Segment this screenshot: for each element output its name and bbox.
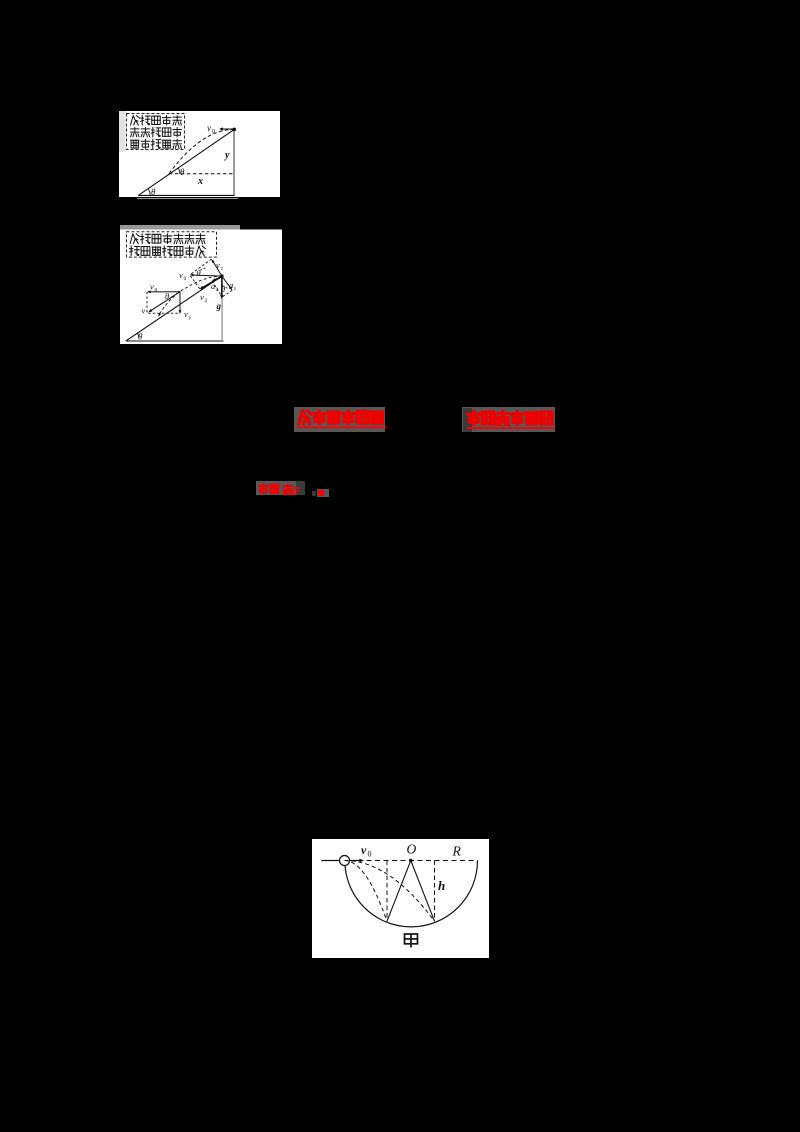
center O dot xyxy=(409,859,412,862)
figure 2: thrown from apex, farthest from incline xyxy=(120,225,282,344)
ball xyxy=(340,856,350,866)
dashed parallelogram side v1tip to v0tip xyxy=(190,259,212,275)
svg-text:0: 0 xyxy=(184,276,187,282)
svg-text:v: v xyxy=(200,292,204,302)
dashed diameter xyxy=(350,860,478,862)
dashed vertical right (h) xyxy=(434,861,436,922)
dashed parallelogram side v2tip to v0tip xyxy=(190,275,200,289)
svg-text:1: 1 xyxy=(221,266,224,272)
small red caption line xyxy=(256,481,296,496)
incline slope xyxy=(126,276,222,341)
vy arrow at M xyxy=(179,292,181,312)
svg-text:g: g xyxy=(216,301,222,311)
left radius line xyxy=(387,861,411,922)
v0 arrow at M xyxy=(149,291,180,293)
svg-text:v: v xyxy=(179,270,183,280)
svg-text:h: h xyxy=(438,878,445,893)
dashed side a2tip to gtip xyxy=(212,281,222,297)
dashed trajectory xyxy=(169,129,234,173)
svg-text:v: v xyxy=(361,843,367,857)
dashed horizontal x line xyxy=(169,173,234,175)
svg-text:0: 0 xyxy=(155,288,158,294)
semicircular bowl arc xyxy=(345,861,478,927)
v0 arrow xyxy=(222,128,235,130)
dashed vertical left xyxy=(386,861,388,922)
figure 3: ball thrown into semicircular bowl xyxy=(312,839,489,958)
svg-text:v: v xyxy=(216,260,220,270)
g arrow straight down xyxy=(221,276,223,297)
svg-text:O: O xyxy=(407,842,417,857)
svg-text:v: v xyxy=(184,309,188,319)
svg-text:θ: θ xyxy=(197,268,201,278)
svg-text:θ: θ xyxy=(151,187,156,197)
trajectory end arrow xyxy=(159,313,160,315)
v1 arrow perpendicular to slope xyxy=(213,261,222,276)
figure 1: projectile from incline apex landing on incline xyxy=(119,111,280,197)
v2 arrow along slope (double stroke) xyxy=(201,277,222,289)
angle theta at landing point xyxy=(178,168,180,174)
red heading block 1 xyxy=(294,407,385,432)
svg-text:R: R xyxy=(452,844,462,859)
v0 arrow line xyxy=(321,860,361,862)
launch point dot xyxy=(232,128,236,132)
incline slope xyxy=(138,129,234,195)
v resultant arrow at M xyxy=(150,292,180,311)
svg-text:y: y xyxy=(224,150,230,161)
svg-text:v: v xyxy=(142,306,146,316)
dashed horizontal from v tip to vy tip xyxy=(148,312,180,314)
svg-text:y: y xyxy=(189,315,192,321)
dashed trajectory shallow xyxy=(345,861,435,922)
a1 arrow perpendicular into slope xyxy=(222,276,231,288)
dashed trajectory from apex through farthest point M xyxy=(161,276,222,312)
dashed trajectory steep xyxy=(345,861,388,922)
caption box: 从斜面顶点水平/抛出,离斜面最远 xyxy=(127,232,217,257)
angle theta at incline base xyxy=(148,189,150,196)
incline right vertical xyxy=(221,276,223,341)
svg-text:1: 1 xyxy=(234,286,237,292)
svg-text:θ: θ xyxy=(180,167,185,177)
right radius line xyxy=(411,861,435,922)
svg-text:2: 2 xyxy=(205,298,208,304)
red square bullet xyxy=(318,490,324,496)
incline base xyxy=(138,194,234,196)
dashed vertical from v0 tip xyxy=(146,292,148,313)
svg-text:x: x xyxy=(197,176,203,187)
svg-text:v: v xyxy=(150,282,154,292)
svg-text:v: v xyxy=(207,123,211,133)
incline right vertical xyxy=(233,129,235,195)
svg-text:θ: θ xyxy=(165,291,169,301)
label jia (甲) xyxy=(405,934,418,948)
svg-text:0: 0 xyxy=(368,850,372,859)
gray header bar xyxy=(120,225,240,230)
a2 arrow along slope xyxy=(214,276,222,280)
apex point dot xyxy=(220,274,223,277)
v2 arrow xyxy=(202,276,222,288)
dashed side a1tip to gtip xyxy=(222,290,232,297)
incline base xyxy=(126,340,224,342)
red heading block 2 xyxy=(462,407,555,432)
v0 arrow at apex xyxy=(192,275,222,276)
caption box: 从斜面顶点/水平抛出且/落在斜面上 xyxy=(127,114,185,150)
